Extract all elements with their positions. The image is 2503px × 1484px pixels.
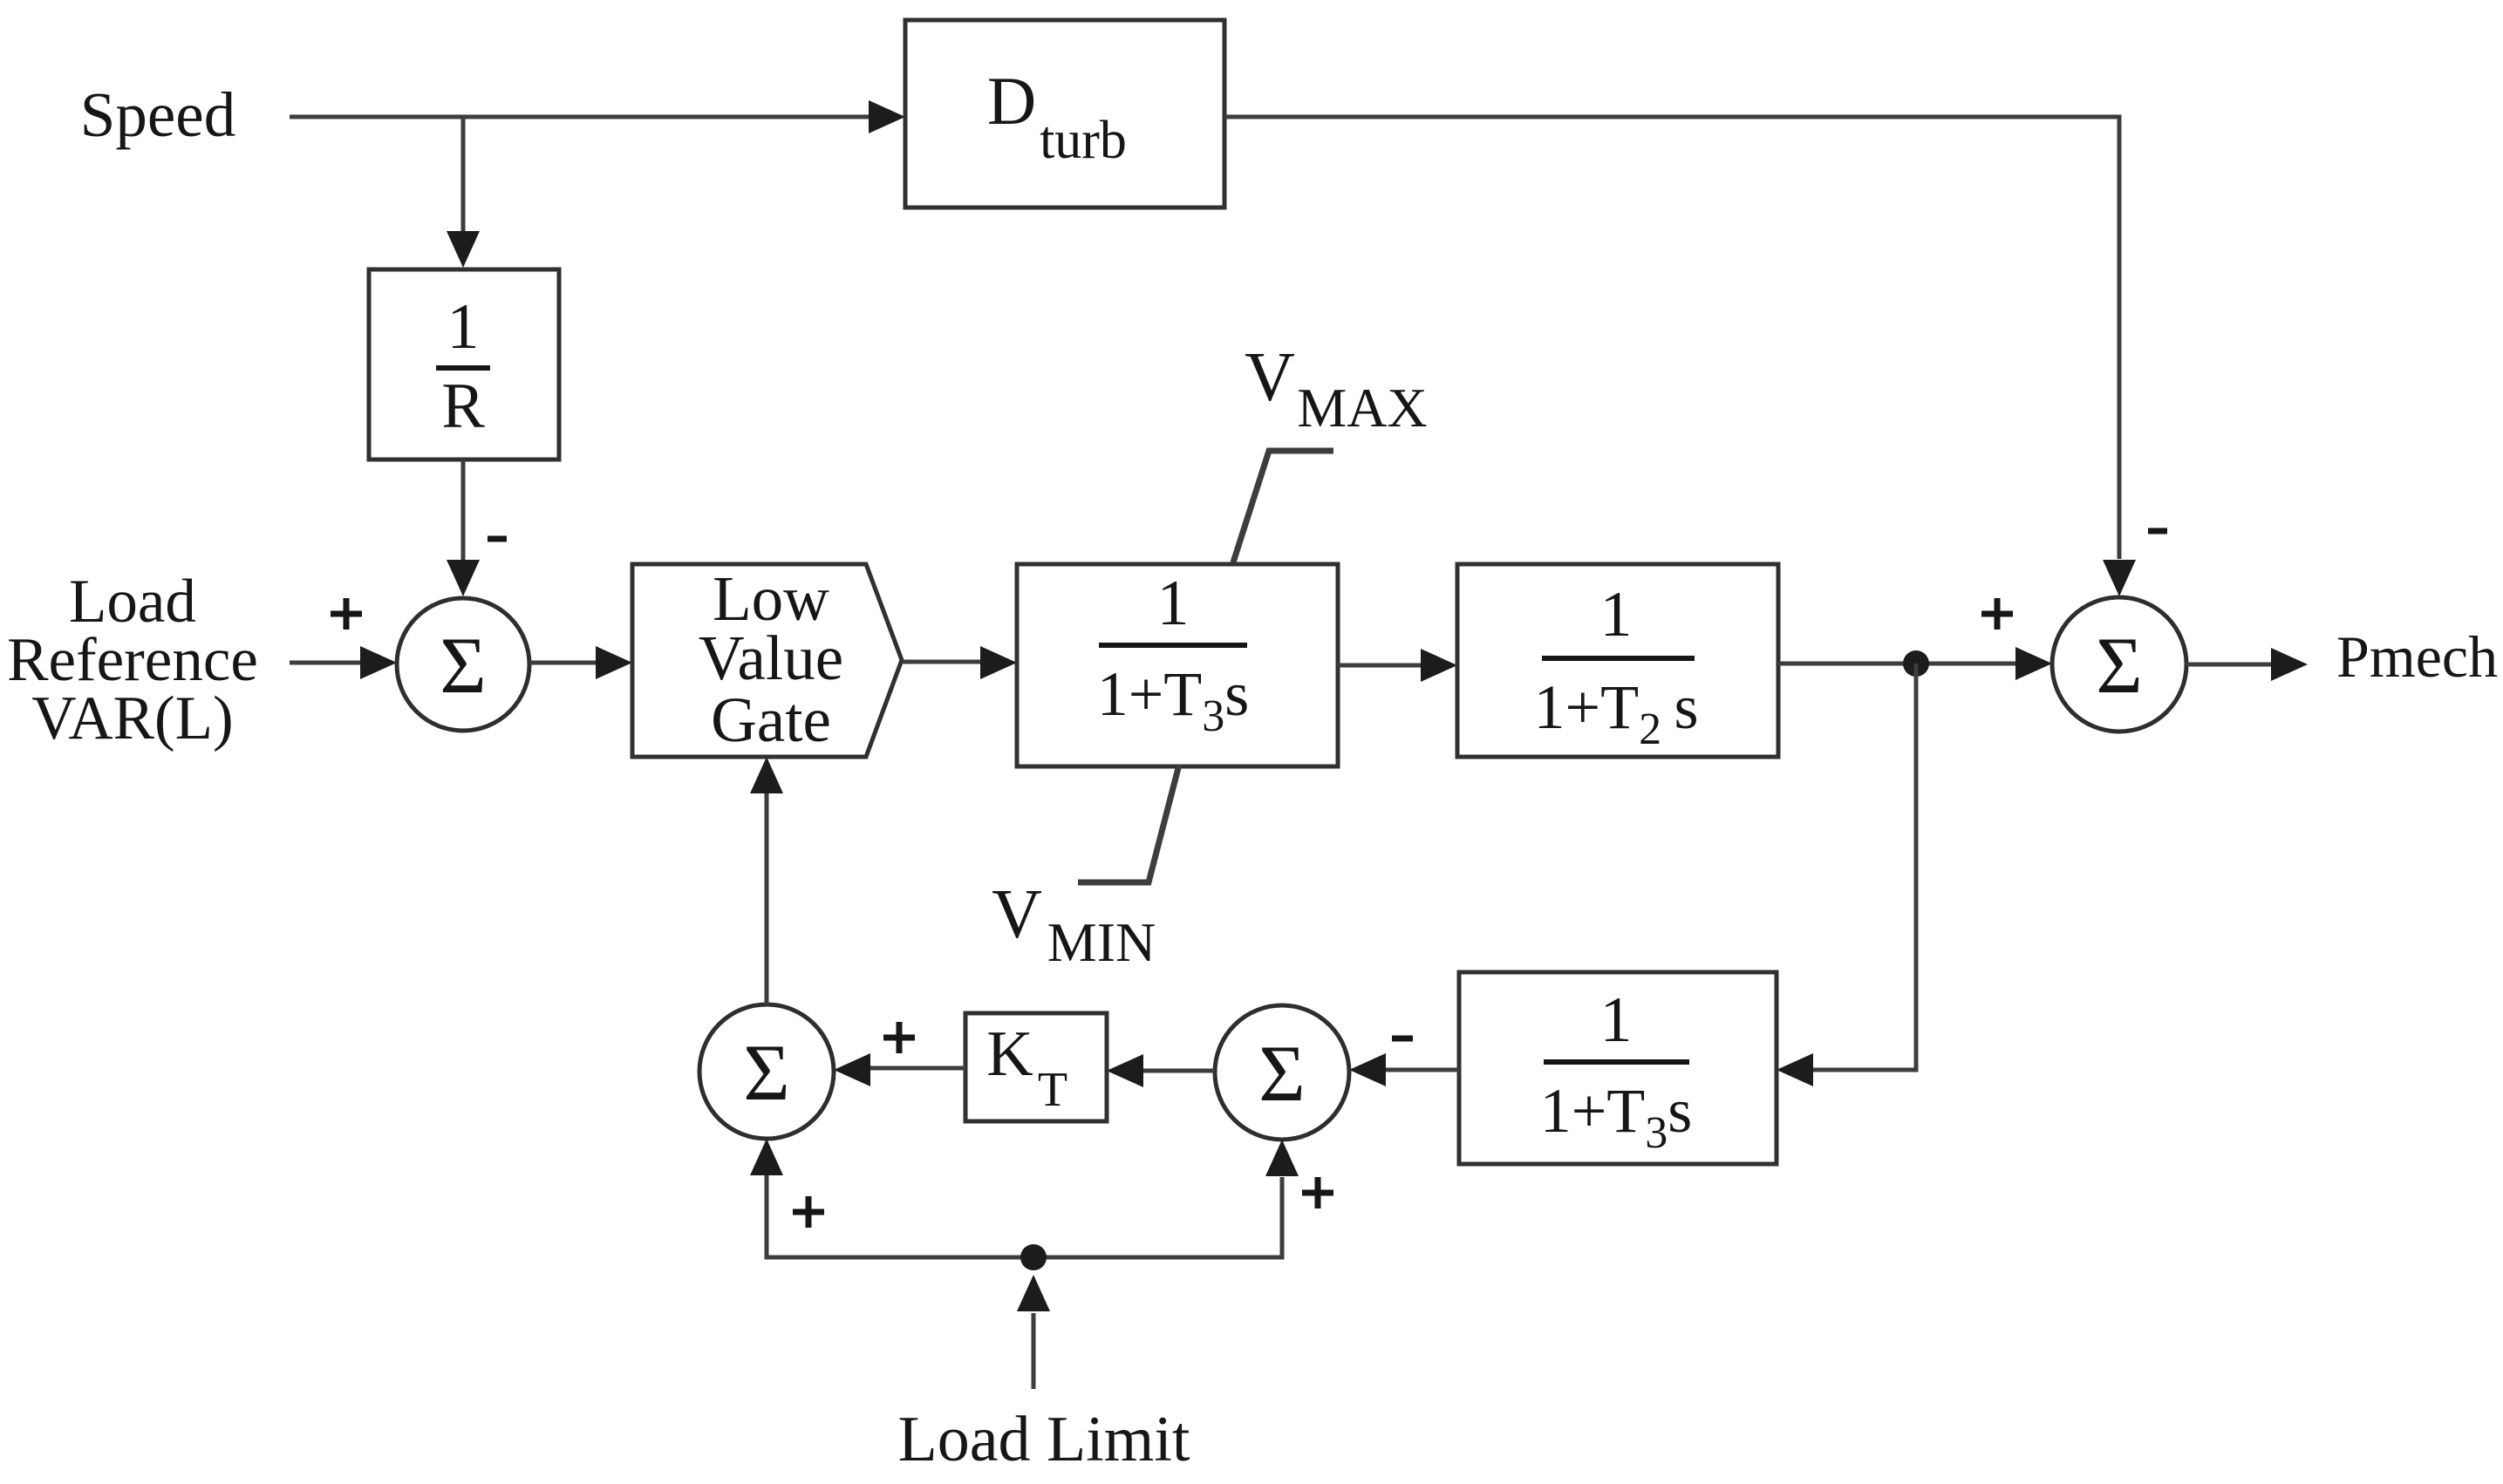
svg-text:R: R [441,371,485,442]
node Load Limit label [898,1404,1190,1475]
plus sign at S3 bottom input [793,1196,824,1228]
minus sign at S1 top input [488,536,507,542]
svg-text:Load Limit: Load Limit [898,1404,1190,1475]
svg-text:Value: Value [699,623,843,693]
svg-text:T: T [1038,1063,1067,1117]
block 1/(1+T3s) lower [1459,972,1777,1164]
svg-text:K: K [986,1018,1033,1090]
plus sign at S3 right input [883,1022,915,1053]
svg-text:Speed: Speed [80,79,235,150]
svg-text:V: V [992,876,1042,953]
svg-text:Σ: Σ [2096,621,2143,710]
svg-text:turb: turb [1040,111,1127,170]
svg-text:D: D [987,63,1036,139]
svg-text:1: 1 [1157,568,1190,639]
minus sign at S4 right input [1392,1036,1413,1042]
svg-text:Gate: Gate [711,684,831,755]
plus sign at S1 left input [331,598,362,630]
svg-text:1: 1 [1600,579,1633,650]
svg-text:1: 1 [447,291,480,363]
block KT [965,1013,1107,1121]
wire 1/R to summing junction S1 [447,459,480,596]
svg-text:1+T3s: 1+T3s [1097,659,1250,741]
svg-text:Pmech: Pmech [2336,623,2498,690]
svg-text:Σ: Σ [1258,1029,1306,1118]
block 1/(1+T3s) upper [1017,564,1338,766]
block 1/(1+T2s) [1457,564,1778,757]
plus sign at S5 left input [1981,598,2013,630]
svg-text:1: 1 [1600,984,1633,1056]
block Dturb [905,20,1224,208]
wire Speed to Dturb [290,100,905,133]
wire S5 to Pmech output [2186,648,2308,681]
wire KT to summing junction S3 [834,1053,965,1086]
svg-text:MIN: MIN [1047,911,1156,973]
wire T3 to block T2 [1338,649,1457,682]
wire Speed branch down to 1/R [447,117,480,268]
wire Dturb feedback to S5 top [1224,117,2136,596]
summing junction S1 [397,598,529,731]
block 1/R [369,269,559,459]
svg-text:1+T3s: 1+T3s [1540,1076,1693,1158]
minus sign at S5 top input [2148,528,2167,534]
node Load Reference VAR(L) label [7,568,258,752]
svg-text:MAX: MAX [1297,377,1427,439]
node Speed label [80,79,235,150]
wire S3 up to Low Value Gate bottom [750,757,783,1004]
wire S4 to block KT [1107,1054,1215,1087]
block Low Value Gate [632,563,902,757]
wire T3 lower to summing junction S4 [1349,1053,1459,1086]
plus sign at S4 bottom input [1302,1177,1333,1208]
svg-text:V: V [1245,339,1295,416]
node Pmech label [2336,623,2498,690]
summing junction S5 [2052,597,2186,732]
node VMAX label and limiter mark [1233,339,1428,562]
wire T2 to summing junction S5 [1778,647,2052,680]
node junction dot on Load Limit line [1020,1244,1047,1270]
wire Load Reference to S1 [290,646,397,679]
wire node down to T3 lower block [1777,664,1916,1086]
wire S1 to Low Value Gate [529,646,632,679]
svg-text:Σ: Σ [743,1028,790,1117]
summing junction S3 [699,1004,834,1139]
svg-text:Σ: Σ [440,621,487,710]
summing junction S4 [1215,1005,1349,1140]
wire Low Value Gate to block T3 [902,646,1017,679]
wire Load Limit input [1017,1275,1050,1389]
wire Load Limit distribution to S3 and S4 [750,1139,1299,1257]
node VMIN label and limiter mark [992,765,1179,973]
svg-text:1+T2 s: 1+T2 s [1533,672,1698,754]
node junction dot after T2 [1903,650,1929,677]
svg-text:VAR(L): VAR(L) [31,684,233,752]
